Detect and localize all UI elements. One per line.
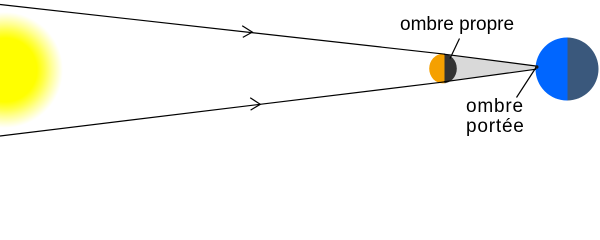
planet dark right half (ombre propre side of planet) bbox=[568, 37, 600, 101]
arrowhead on lower ray bbox=[250, 98, 260, 110]
sun (light source glow) bbox=[0, 12, 63, 128]
umbra cone bottom edge bbox=[444, 69, 536, 82]
cone apex knot bbox=[535, 65, 538, 68]
leader line to "ombre portee" label bbox=[517, 68, 537, 98]
svg-text:portée: portée bbox=[466, 116, 525, 137]
svg-text:ombre: ombre bbox=[466, 96, 524, 117]
arrowhead on upper ray bbox=[242, 26, 252, 38]
moon dark right half (ombre propre) bbox=[445, 54, 459, 85]
planet (blue sphere), lit left half bbox=[535, 37, 599, 101]
lower light ray (wire from sun edge to cone apex) bbox=[0, 82, 445, 136]
umbra cone top edge bbox=[444, 54, 537, 66]
moon lit left half (orange) bbox=[429, 54, 459, 85]
leader line to "ombre propre" label bbox=[450, 39, 460, 59]
upper light ray (wire from sun edge to cone apex) bbox=[0, 5, 445, 55]
umbra cone (ombre portee, grey shadow cone) bbox=[444, 54, 537, 82]
svg-text:ombre propre: ombre propre bbox=[400, 14, 514, 35]
